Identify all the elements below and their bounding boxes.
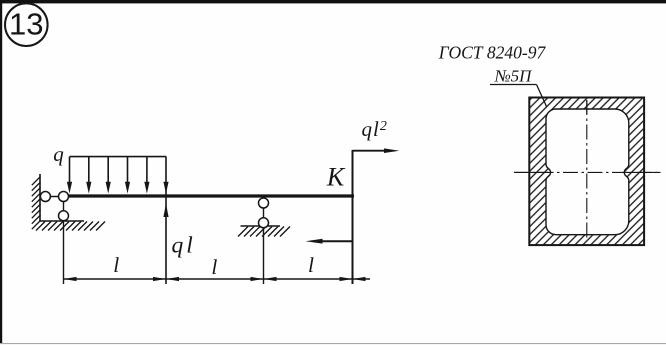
- figure-number circle 13: [5, 3, 48, 46]
- reaction force line ql (shared with last load arrow): [165, 157, 167, 284]
- dimension extension line at left support: [63, 197, 65, 285]
- svg-text:K: K: [326, 163, 346, 192]
- dimension arrowheads: [64, 277, 366, 281]
- cross-section: inner contour: [546, 109, 629, 235]
- border: faint bottom line: [0, 343, 666, 344]
- cross-section: horizontal centerline: [514, 171, 661, 173]
- distributed load q : top line: [70, 156, 167, 158]
- distributed load arrows: [67, 157, 150, 194]
- middle support: lower roller: [259, 218, 269, 228]
- moment couple: upper arrow to the right: [353, 150, 386, 152]
- moment couple vertical line at right end: [352, 150, 354, 284]
- moment couple: lower arrow to the left: [321, 240, 353, 242]
- svg-text:№5П: №5П: [494, 67, 534, 86]
- middle support: ground hatching: [238, 227, 290, 237]
- cross-section: hatched walls: [529, 98, 644, 246]
- cross-section: outer contour: [529, 98, 644, 246]
- leader line: [537, 85, 547, 107]
- dimension line: [64, 278, 353, 280]
- up arrowhead of ql: [163, 204, 168, 218]
- left support: roller on ground: [59, 211, 69, 221]
- left support: wall hatching: [32, 177, 41, 230]
- svg-text:13: 13: [9, 7, 43, 42]
- svg-text:q: q: [53, 142, 64, 166]
- middle support: ground line: [241, 225, 281, 227]
- left support: ground line: [39, 220, 84, 222]
- left support: pin at beam end: [59, 192, 69, 202]
- middle support: extension line: [263, 197, 265, 284]
- svg-text:l: l: [211, 255, 217, 279]
- svg-text:ql: ql: [172, 233, 196, 259]
- left support: link lines: [40, 196, 64, 198]
- svg-text:l: l: [113, 253, 119, 277]
- border: left bar: [0, 0, 2, 343]
- left support: wall line: [39, 174, 41, 222]
- middle support: roller under beam: [259, 198, 269, 208]
- dimension stub beyond right end: [353, 278, 371, 280]
- svg-text:l: l: [308, 253, 314, 277]
- left support: ground hatching: [36, 222, 105, 231]
- leader underline: [490, 84, 537, 86]
- border: top bar: [0, 0, 666, 3]
- beam: [64, 194, 355, 197]
- cross-section: vertical centerline: [586, 100, 588, 240]
- svg-text:ГОСТ 8240-97: ГОСТ 8240-97: [438, 43, 547, 63]
- left support: roller on wall: [40, 192, 50, 202]
